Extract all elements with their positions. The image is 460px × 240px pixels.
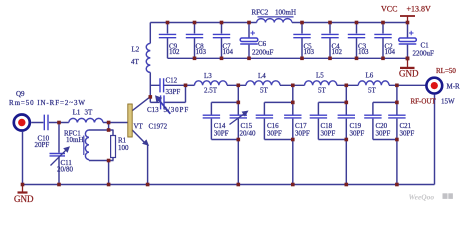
- svg-text:5T: 5T: [318, 87, 327, 95]
- svg-text:20/40: 20/40: [240, 130, 256, 138]
- svg-text:VCC: VCC: [381, 5, 397, 14]
- svg-text:103: 103: [358, 48, 369, 56]
- svg-text:GND: GND: [14, 194, 34, 204]
- svg-text:102: 102: [169, 48, 180, 56]
- svg-text:3T: 3T: [85, 109, 94, 117]
- svg-text:100mH: 100mH: [275, 8, 296, 16]
- svg-text:30PF: 30PF: [214, 130, 229, 138]
- svg-text:30PF: 30PF: [295, 130, 310, 138]
- svg-text:5/30PF: 5/30PF: [164, 106, 190, 114]
- svg-text:C1: C1: [421, 42, 430, 50]
- svg-text:C1972: C1972: [149, 123, 168, 131]
- svg-text:RF-OUT: RF-OUT: [411, 98, 437, 106]
- svg-text:Q9: Q9: [16, 90, 25, 98]
- svg-text:30PF: 30PF: [350, 130, 365, 138]
- svg-text:GND: GND: [399, 69, 419, 79]
- svg-text:10mH: 10mH: [66, 136, 84, 144]
- svg-text:102: 102: [332, 48, 343, 56]
- svg-text:30PF: 30PF: [400, 130, 415, 138]
- svg-text:15W: 15W: [441, 98, 455, 106]
- svg-text:20PF: 20PF: [35, 141, 50, 149]
- svg-text:RFC2: RFC2: [252, 8, 269, 16]
- svg-text:C13: C13: [147, 106, 159, 114]
- svg-text:4T: 4T: [131, 58, 140, 66]
- svg-text:103: 103: [196, 48, 207, 56]
- svg-text:5T: 5T: [260, 87, 269, 95]
- svg-text:Rm=50 IN-RF=2~3W: Rm=50 IN-RF=2~3W: [9, 99, 85, 107]
- svg-text:103: 103: [304, 48, 315, 56]
- svg-text:C12: C12: [166, 77, 178, 85]
- svg-text:30PF: 30PF: [321, 130, 336, 138]
- svg-text:2.5T: 2.5T: [204, 87, 218, 95]
- svg-text:100: 100: [118, 144, 129, 152]
- svg-text:M-R: M-R: [447, 83, 460, 91]
- svg-text:104: 104: [385, 48, 396, 56]
- svg-text:VT: VT: [134, 123, 144, 131]
- svg-text:30PF: 30PF: [267, 130, 282, 138]
- svg-text:L4: L4: [258, 72, 266, 80]
- svg-text:L3: L3: [204, 72, 212, 80]
- svg-text:C6: C6: [258, 40, 267, 48]
- svg-text:L1: L1: [73, 109, 81, 117]
- svg-text:2200uF: 2200uF: [252, 48, 274, 56]
- svg-text:L5: L5: [316, 72, 324, 80]
- svg-text:+13.8V: +13.8V: [407, 5, 432, 14]
- svg-text:L2: L2: [132, 46, 140, 54]
- svg-text:20/80: 20/80: [57, 166, 73, 174]
- svg-text:5T: 5T: [368, 87, 377, 95]
- svg-text:2200uF: 2200uF: [413, 49, 435, 57]
- svg-text:WeeQoo: WeeQoo: [409, 192, 435, 201]
- svg-text:104: 104: [223, 48, 234, 56]
- svg-text:L6: L6: [366, 72, 374, 80]
- svg-text:RL=50: RL=50: [436, 67, 456, 75]
- svg-text:30PF: 30PF: [376, 130, 391, 138]
- svg-text:33PF: 33PF: [166, 88, 181, 96]
